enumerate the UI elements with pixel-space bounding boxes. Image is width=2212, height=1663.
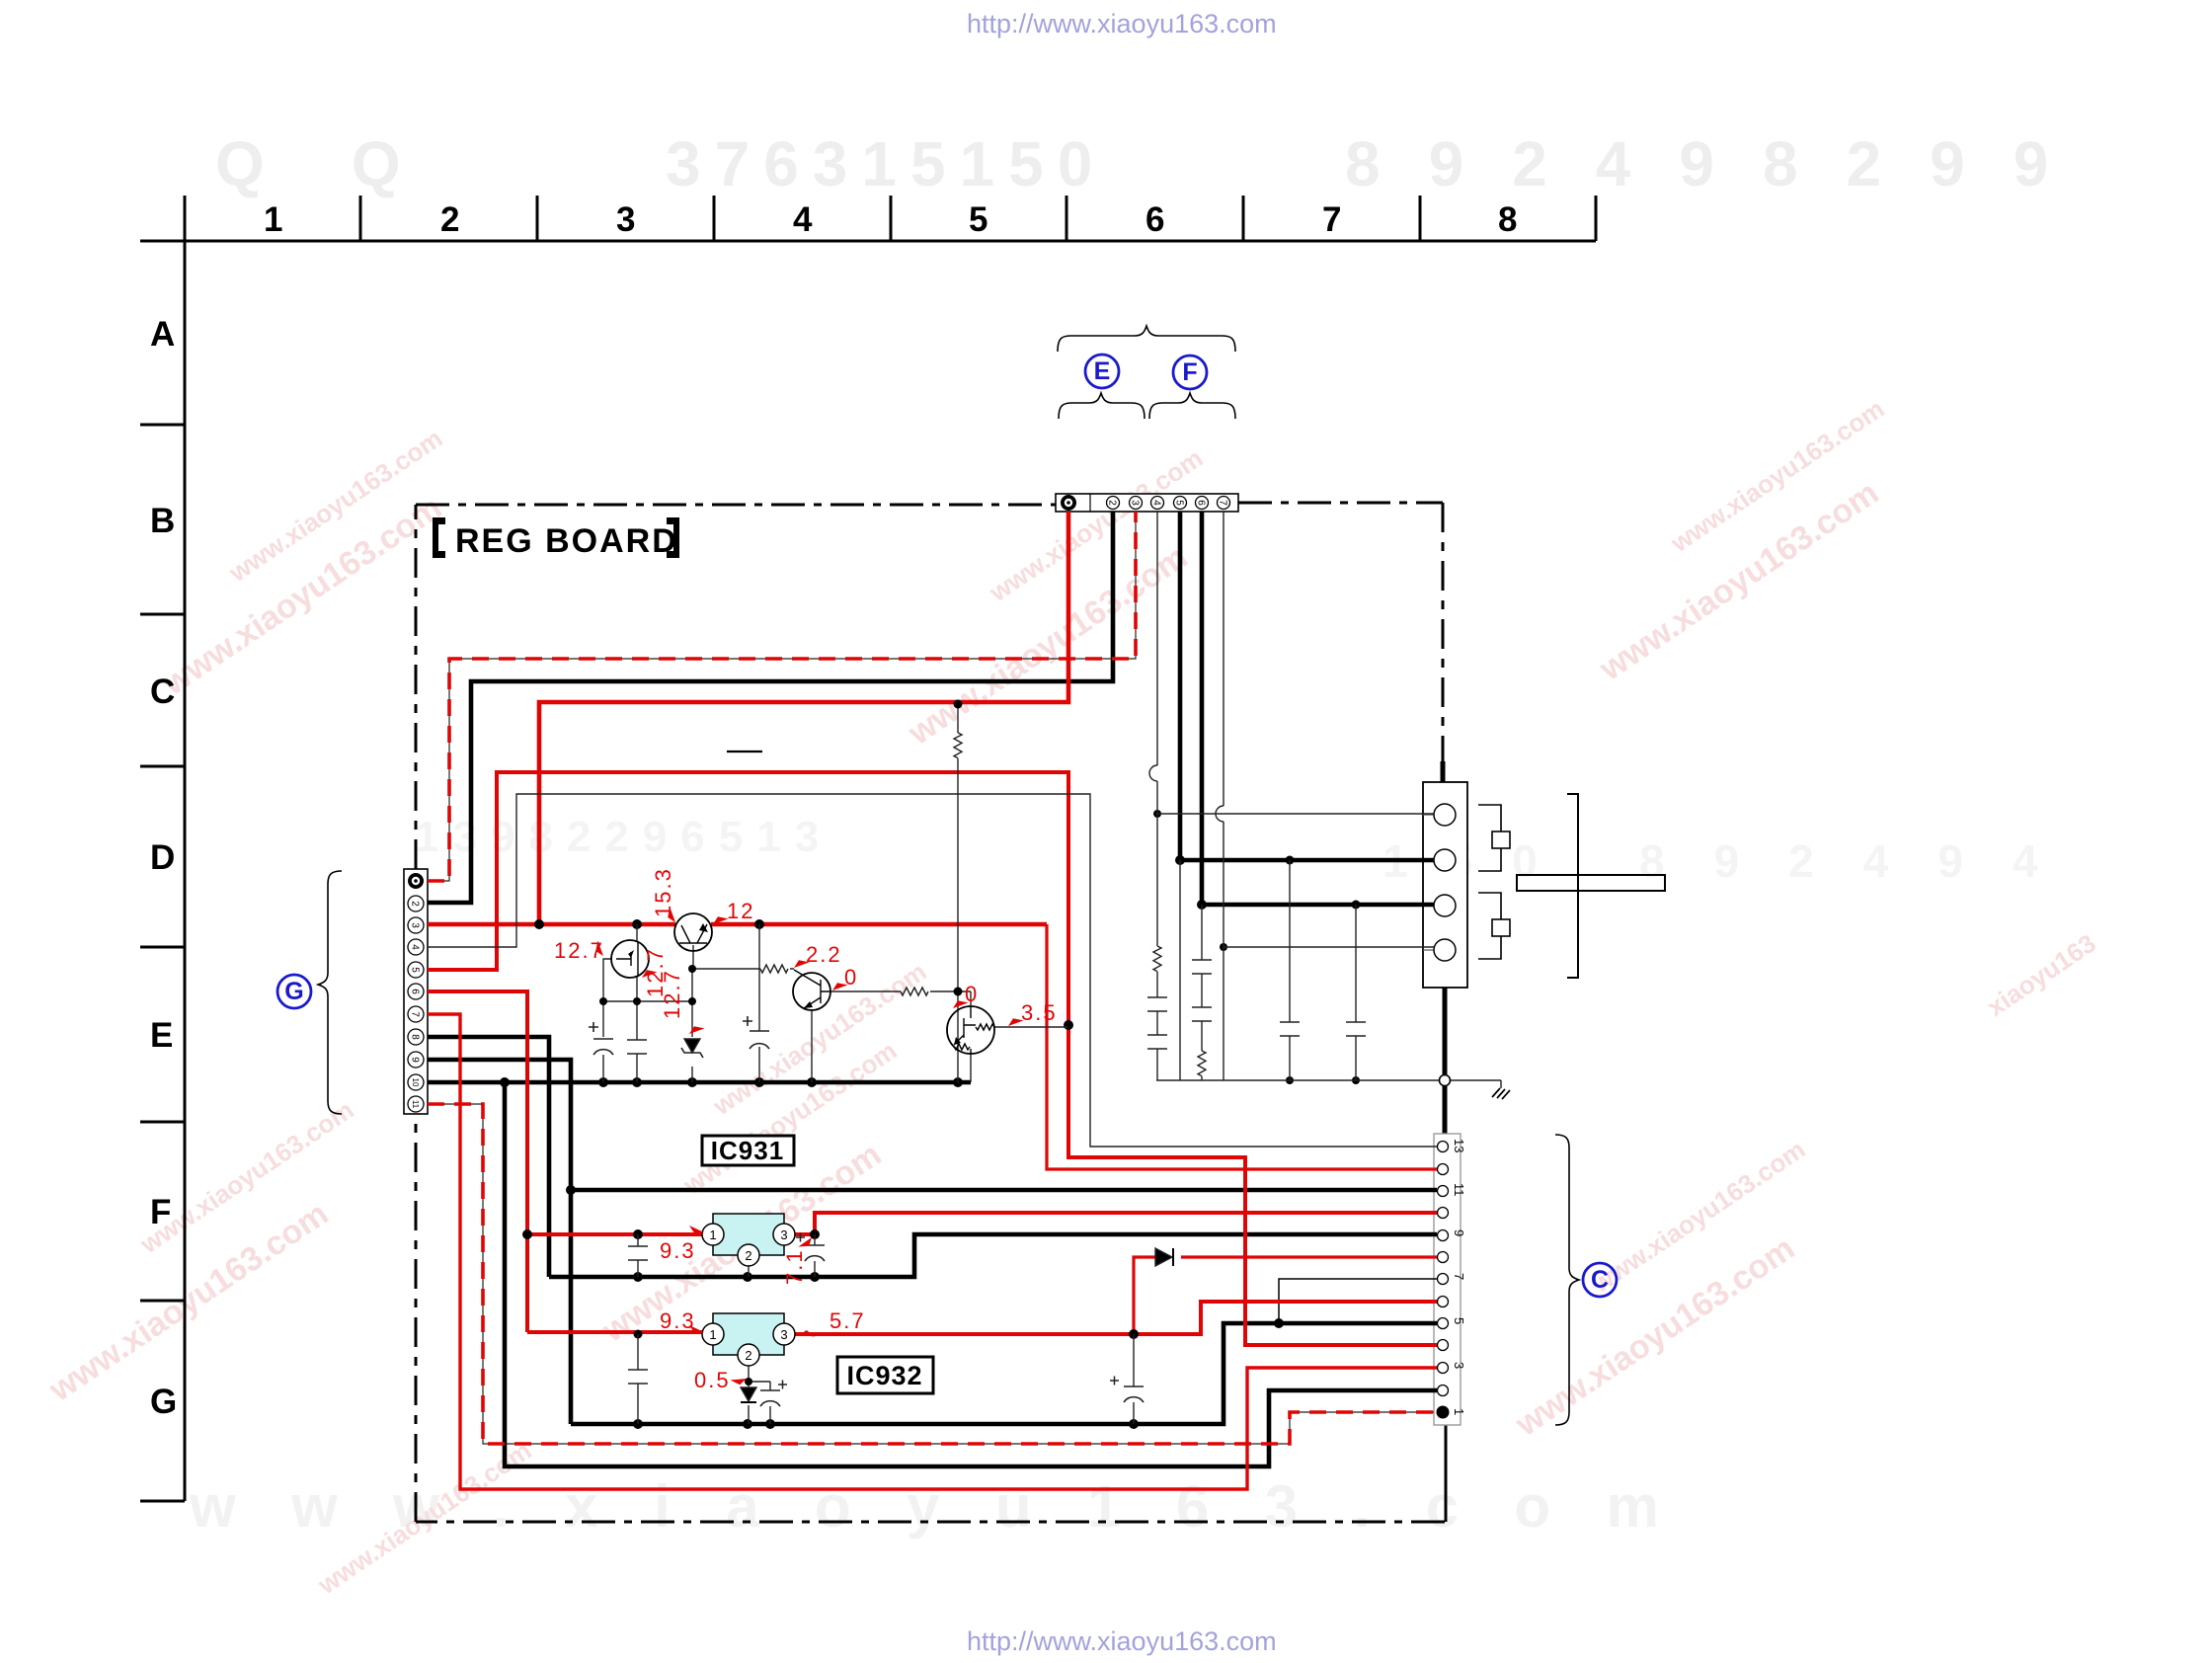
svg-text:5: 5 xyxy=(969,200,987,239)
battery contact switch 1 xyxy=(1478,805,1510,871)
svg-text:4: 4 xyxy=(409,944,420,950)
voltage 9.3 ic931 xyxy=(660,1226,704,1263)
voltage 0.5 xyxy=(694,1368,748,1392)
connector CN901 pin 2 xyxy=(1106,497,1119,510)
board outline right edge upper xyxy=(1442,503,1445,761)
connector C pin 13 xyxy=(1438,1139,1467,1152)
board outline below connector C xyxy=(1445,1425,1448,1522)
capacitor C col pin4 lower xyxy=(1147,1035,1167,1049)
connector CN901 pin 1 xyxy=(1061,495,1076,511)
board outline wire ground node to connector C xyxy=(1443,1085,1448,1134)
wire G8 to IC931 gnd xyxy=(428,1037,549,1277)
capacitor C933 x646 xyxy=(628,1370,648,1384)
voltage 15.3 xyxy=(651,867,680,923)
svg-text:892498299: 892498299 xyxy=(1345,128,2096,199)
chassis ground symbol xyxy=(1492,1088,1510,1099)
svg-text:G: G xyxy=(150,1383,177,1421)
svg-text:4: 4 xyxy=(1150,500,1161,506)
column x611 gate xyxy=(603,959,612,1082)
diode D932 (IC932 pin2) xyxy=(741,1387,756,1402)
connector CN902 pin 5 xyxy=(408,962,424,978)
board outline top edge right of connector xyxy=(1238,502,1443,505)
red junction dots xyxy=(522,919,1139,1339)
resistor R941 (x970 vertical) xyxy=(954,733,962,758)
connector CN902 pin 8 xyxy=(408,1029,424,1045)
wire IC932 gnd line to C pin5 xyxy=(571,1323,1437,1424)
capacitor C931 x646 xyxy=(628,1246,648,1260)
label G xyxy=(277,975,311,1008)
svg-text:3: 3 xyxy=(409,922,420,928)
voltage 9.3 ic932 xyxy=(660,1308,704,1334)
connector CN902 pin 1 xyxy=(408,873,424,889)
connector CN901 pin 4 xyxy=(1150,497,1163,510)
wire pin4 to CN903 pinA xyxy=(1157,813,1434,815)
svg-text:5: 5 xyxy=(1173,500,1184,506)
board outline bottom edge xyxy=(416,1521,1445,1524)
connector C pin 7 xyxy=(1438,1273,1467,1285)
regulator IC932 xyxy=(702,1313,795,1366)
capacitor C x1306 xyxy=(1280,1022,1300,1036)
svg-text:1: 1 xyxy=(709,1327,716,1342)
svg-text:9: 9 xyxy=(1452,1229,1466,1236)
wire IC931 out 7.1 to C pin10 xyxy=(793,1213,1437,1234)
connector CN902 pin 2 xyxy=(408,896,424,911)
diode D933 (to C pin8) xyxy=(1155,1248,1173,1266)
REDWIRES xyxy=(428,512,1437,1489)
wire 12V rail right of Q931 xyxy=(711,922,1047,927)
svg-text:8: 8 xyxy=(409,1034,420,1040)
Q933 3.5 output line xyxy=(994,1026,1068,1028)
connector CN902 pin 9 xyxy=(408,1052,424,1068)
svg-text:F: F xyxy=(150,1193,171,1231)
board outline left edge lower xyxy=(415,1114,418,1522)
connector CN902 pin 10 xyxy=(408,1074,424,1090)
svg-text:F: F xyxy=(1182,358,1197,386)
svg-text:3: 3 xyxy=(780,1227,787,1242)
wire CN901 pin4 down xyxy=(1156,512,1158,765)
column x1373 cap xyxy=(1355,905,1357,1080)
svg-text:7: 7 xyxy=(1322,200,1341,239)
svg-text:7: 7 xyxy=(1217,500,1227,506)
svg-text:E: E xyxy=(150,1016,173,1055)
connector CN902 pin 7 xyxy=(408,1006,424,1022)
connector CN903 pin C xyxy=(1423,895,1456,916)
thin dots xyxy=(599,700,963,1386)
svg-text:10: 10 xyxy=(411,1078,420,1087)
transistor Q931 pass xyxy=(674,913,712,951)
resistor R base row (horizontal x770) xyxy=(760,965,788,973)
wire 5.7 branch to diode and C pin8 xyxy=(1134,1257,1155,1334)
crossover hook pin7 xyxy=(1216,806,1224,822)
wire IC932 out 5.7 xyxy=(793,1332,1134,1336)
column pin5 xyxy=(1179,860,1181,1080)
svg-text:9: 9 xyxy=(409,1057,420,1063)
svg-text:8: 8 xyxy=(1498,200,1517,239)
wire 9.3 into IC931 pin1 xyxy=(527,1232,704,1236)
svg-text:6: 6 xyxy=(1195,500,1206,506)
column x701 zener xyxy=(691,969,693,1082)
wire G4 to C pin13 xyxy=(428,794,1437,1147)
svg-text:6: 6 xyxy=(409,989,420,994)
svg-text:3: 3 xyxy=(780,1327,787,1342)
label F xyxy=(1173,356,1207,389)
svg-text:3.5: 3.5 xyxy=(1021,1000,1058,1025)
brace above CN901 xyxy=(1058,326,1235,352)
wire G10 branch to C pin2 xyxy=(505,1082,1437,1466)
svg-text:C: C xyxy=(150,673,175,711)
connector C pin 4 xyxy=(1438,1340,1449,1351)
voltage 5.7 xyxy=(798,1308,865,1342)
connector C pin 11 xyxy=(1438,1183,1467,1197)
svg-text:5: 5 xyxy=(409,967,420,973)
label IC931 xyxy=(702,1136,794,1165)
wire 12V rail down to C pin12 xyxy=(1047,924,1437,1169)
label E xyxy=(1085,355,1119,388)
wire G7 to C pin3 xyxy=(428,1014,1437,1489)
connector C pin 1 xyxy=(1437,1406,1467,1419)
connector C pin 6 xyxy=(1438,1297,1449,1307)
capacitor C934 electrolytic x780 xyxy=(760,1390,780,1406)
connector C pin 5 xyxy=(1438,1317,1467,1329)
connector CN903 pin A xyxy=(1423,804,1456,826)
wire pin7 to CN903 pinD xyxy=(1224,946,1434,948)
svg-text:REG BOARD: REG BOARD xyxy=(455,522,678,560)
transistor Q933 digital xyxy=(947,1006,994,1054)
IC932 input cap column x646 xyxy=(637,1334,639,1424)
IC931 pin2 drop xyxy=(748,1266,750,1277)
svg-text:4: 4 xyxy=(793,200,813,239)
crossover hook pin4 xyxy=(1149,765,1157,781)
connector CN902 pin 11 xyxy=(408,1096,424,1112)
voltage 12.7 rot A xyxy=(641,947,668,997)
connector CN902 pin 6 xyxy=(408,984,424,999)
svg-text:C: C xyxy=(1591,1266,1609,1294)
IC932 output cap column x1148 xyxy=(1133,1334,1135,1424)
board outline right edge stub into 4p connector xyxy=(1441,761,1446,782)
wire G9 down xyxy=(428,1060,571,1424)
right ground rail xyxy=(1156,1080,1501,1088)
board outline wire 4p connector to ground node xyxy=(1443,988,1448,1075)
wire G9 branch to C pin11 xyxy=(571,1188,1437,1193)
wire C pin7 to pin5 junction xyxy=(1279,1279,1437,1323)
Q931 base node xyxy=(692,945,794,969)
svg-text:2: 2 xyxy=(440,200,459,239)
connector CN901 pin 3 xyxy=(1129,497,1142,510)
connector CN901 pin 5 xyxy=(1173,497,1186,510)
transistor Q932 xyxy=(793,970,830,1010)
capacitor C941 x645 xyxy=(627,1040,647,1054)
board outline top edge xyxy=(416,504,1056,507)
svg-text:3: 3 xyxy=(1129,500,1140,506)
svg-text:http://www.xiaoyu163.com: http://www.xiaoyu163.com xyxy=(967,1626,1277,1656)
label IC932 xyxy=(837,1357,933,1393)
svg-text:2.2: 2.2 xyxy=(806,942,842,967)
brace right connector C xyxy=(1555,1135,1579,1425)
IC931 input cap column x646 xyxy=(637,1234,639,1277)
svg-text:0: 0 xyxy=(844,965,858,990)
svg-text:892494: 892494 xyxy=(1639,835,2088,887)
connector CN901 top box xyxy=(1056,494,1238,512)
brace left G connector xyxy=(318,871,342,1114)
svg-text:11: 11 xyxy=(1452,1183,1466,1197)
brace under F xyxy=(1149,393,1235,419)
capacitor C col pin6 lower xyxy=(1192,1007,1212,1021)
wire 9.3 into IC932 pin1 xyxy=(527,1330,704,1334)
capacitor C940 electrolytic x611 xyxy=(593,1039,613,1055)
transistor Q934 mosfet xyxy=(611,940,649,978)
svg-text:2: 2 xyxy=(409,901,420,907)
CONNECTORS xyxy=(404,494,1665,1425)
connector CN903 pin B xyxy=(1423,849,1456,871)
connector CN902 pin 4 xyxy=(408,939,424,955)
svg-text:6: 6 xyxy=(1145,200,1164,239)
voltage 12.7 rot B xyxy=(660,969,705,1039)
capacitor C x1373 xyxy=(1346,1022,1366,1036)
column pin6 caps xyxy=(1201,905,1203,1080)
connector CN902 pin 3 xyxy=(408,917,424,933)
THINWIRES xyxy=(428,512,1510,1424)
resistor RC col pin4 xyxy=(1153,946,1161,972)
voltage 7.1 rot xyxy=(782,1234,814,1286)
IC931 output cap column x825 xyxy=(814,1234,816,1277)
Q933 emitter down xyxy=(970,1054,972,1082)
x970 column from 15.3 node xyxy=(957,704,959,1082)
wire G3 15.3 rail left xyxy=(428,922,675,927)
regulator IC931 xyxy=(702,1214,795,1266)
svg-text:0.5: 0.5 xyxy=(694,1368,731,1392)
svg-text:http://www.xiaoyu163.com: http://www.xiaoyu163.com xyxy=(967,9,1277,39)
wire G2 to CN901 pin2 xyxy=(428,512,1113,903)
connector C pin 12 xyxy=(1438,1164,1449,1175)
svg-text:2: 2 xyxy=(745,1248,751,1263)
floating stub segment xyxy=(727,751,762,752)
wire CN901 pin5 to CN903 pinB xyxy=(1180,512,1434,860)
capacitor C935 electrolytic x1148 xyxy=(1124,1386,1144,1402)
connector C pin 10 xyxy=(1438,1208,1449,1219)
battery plate bar xyxy=(1517,875,1665,891)
column x769 cap xyxy=(758,924,760,1082)
connector C box xyxy=(1434,1134,1461,1425)
column x1306 cap xyxy=(1289,860,1291,1080)
connector CN902 left box (G) xyxy=(404,869,428,1114)
svg-text:3: 3 xyxy=(616,200,635,239)
svg-text:1: 1 xyxy=(709,1227,716,1242)
wire G11 dashed red to C pin1 : underlay xyxy=(428,1104,1434,1444)
capacitor C932 electrolytic x825 xyxy=(805,1245,825,1261)
connector CN903 pin D xyxy=(1423,939,1456,961)
wire CN901 pin6 to CN903 pinC xyxy=(1202,512,1434,905)
connector CN901 pin 6 xyxy=(1195,497,1208,510)
battery contact switch 2 xyxy=(1478,893,1510,959)
resistor RC col pin6 xyxy=(1198,1051,1206,1076)
voltage 0 q933 xyxy=(952,982,980,1013)
connector C pin 3 xyxy=(1438,1362,1467,1374)
wire 5.7 to C pin6 xyxy=(1134,1302,1437,1334)
svg-text:7: 7 xyxy=(409,1011,420,1017)
svg-text:7: 7 xyxy=(1452,1273,1466,1280)
svg-text:5.7: 5.7 xyxy=(829,1308,866,1333)
board name REG BOARD xyxy=(433,517,679,560)
Q932 output 0 line xyxy=(830,991,971,1006)
connector C pin 2 xyxy=(1438,1386,1449,1396)
resistor R barrier 2.2 (horizontal) xyxy=(901,988,928,995)
svg-text:376315150: 376315150 xyxy=(666,128,1106,199)
voltage 0 q932 xyxy=(831,965,859,995)
capacitor C col pin6 upper xyxy=(1192,960,1212,974)
voltage 2.2 xyxy=(793,942,842,973)
label C xyxy=(1583,1263,1617,1297)
svg-text:B: B xyxy=(150,502,175,540)
connector C pin 8 xyxy=(1438,1252,1449,1263)
svg-text:1: 1 xyxy=(264,200,282,239)
svg-text:3: 3 xyxy=(1452,1362,1466,1369)
wire CN901 pin1 to 15.3 rail xyxy=(539,512,1068,924)
svg-text:9.3: 9.3 xyxy=(660,1308,696,1333)
voltage 12 xyxy=(712,899,755,929)
zener diode D931 x701 xyxy=(681,1039,703,1058)
wire G5 3.5V line xyxy=(428,772,1437,1345)
ruler top line xyxy=(140,240,1596,243)
voltage 12.7 mosfet xyxy=(554,938,608,963)
svg-text:IC931: IC931 xyxy=(711,1136,784,1165)
connector C pin 9 xyxy=(1438,1229,1467,1241)
svg-text:D: D xyxy=(150,838,175,877)
svg-text:G: G xyxy=(284,978,303,1005)
ground node open circle xyxy=(1440,1075,1451,1086)
svg-text:13: 13 xyxy=(1452,1139,1466,1152)
COMPONENTS xyxy=(589,733,1366,1406)
svg-text:13982296513: 13982296513 xyxy=(415,813,832,861)
svg-text:12.7: 12.7 xyxy=(660,969,684,1019)
wire G11 dashed red overlay xyxy=(428,1104,1434,1444)
left border line xyxy=(184,196,187,1501)
board outline left edge upper xyxy=(415,505,418,869)
capacitor C col pin4 upper xyxy=(1147,997,1167,1011)
wire CN901 pin7 down xyxy=(1223,512,1224,806)
wire G10 ground bus xyxy=(428,1080,971,1085)
svg-text:2: 2 xyxy=(1106,500,1117,506)
svg-text:12: 12 xyxy=(727,899,754,923)
wire IC931 gnd line to C pin9 xyxy=(549,1234,1437,1277)
svg-text:2: 2 xyxy=(745,1348,751,1363)
wire G1 dashed red to CN901 pin3 : underlay xyxy=(428,512,1136,881)
column ticks xyxy=(184,196,187,241)
connector CN901 pin 7 xyxy=(1217,497,1229,510)
svg-text:QQ: QQ xyxy=(215,128,488,199)
battery bracket xyxy=(1567,794,1578,978)
voltage 3.5 xyxy=(1007,1000,1058,1031)
svg-text:15.3: 15.3 xyxy=(651,867,675,917)
connector CN903 right 4p box xyxy=(1423,782,1467,988)
svg-text:11: 11 xyxy=(411,1100,420,1109)
brace under E xyxy=(1059,393,1145,419)
svg-text:9.3: 9.3 xyxy=(660,1238,696,1263)
wire G1 dashed red overlay xyxy=(428,512,1136,881)
svg-text:5: 5 xyxy=(1452,1317,1466,1324)
svg-text:A: A xyxy=(150,315,175,354)
wire G6 9.3V feed xyxy=(428,991,527,1332)
bias row xyxy=(603,1000,692,1002)
junction dots black wires xyxy=(500,810,1361,1429)
column x645 mosfet xyxy=(636,924,638,1082)
IC932 pin2 node with diode and cap xyxy=(749,1366,770,1424)
Q932 emitter down xyxy=(811,1010,813,1082)
BLACKWIRES xyxy=(428,512,1437,1466)
capacitor C942 electrolytic x769 xyxy=(750,1031,769,1049)
row ticks xyxy=(140,424,185,427)
svg-text:7.1: 7.1 xyxy=(782,1248,807,1285)
svg-text:E: E xyxy=(1094,357,1111,385)
svg-text:1: 1 xyxy=(1452,1408,1466,1415)
RC column pin4 xyxy=(1156,814,1158,1080)
svg-text:IC932: IC932 xyxy=(846,1361,922,1390)
